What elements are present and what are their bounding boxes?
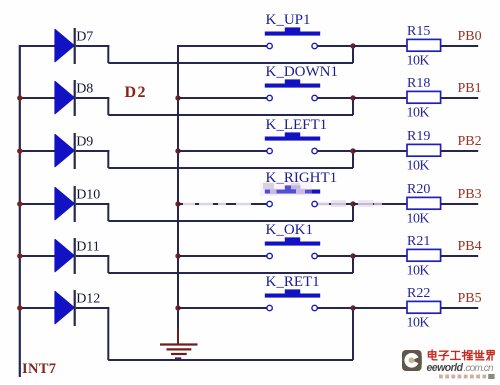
svg-text:K_OK1: K_OK1	[266, 222, 314, 238]
svg-text:K_RET1: K_RET1	[266, 274, 320, 290]
resistor R15	[407, 39, 441, 51]
wire: riser to junction PB4	[352, 256, 354, 273]
svg-text:10K: 10K	[407, 159, 430, 174]
wire: switch K_UP1 to junction	[317, 45, 353, 47]
logo title 电子工程世界	[428, 350, 494, 360]
node: bus junction row 5	[175, 253, 180, 258]
wire: bottom return wire	[108, 359, 353, 361]
wire: D8 step down	[107, 97, 109, 115]
wire: junction to resistor R20	[353, 203, 408, 205]
svg-text:R15: R15	[407, 24, 430, 39]
wire: riser to junction PB0	[352, 46, 354, 63]
wire: D9 cathode wire	[76, 150, 110, 152]
wire: riser to junction PB3	[352, 204, 354, 221]
node: bus junction row 4	[175, 201, 180, 206]
wire: bus to switch K_LEFT1	[178, 150, 267, 152]
svg-text:D10: D10	[76, 188, 100, 203]
wire: bus to switch K_DOWN1	[178, 97, 267, 99]
wire: resistor R15 to PB0	[441, 45, 479, 47]
node: rail junction row 6	[17, 305, 22, 310]
svg-text:PB2: PB2	[458, 134, 482, 149]
node: bus junction row 3	[175, 148, 180, 153]
wire: D7 step down	[107, 45, 109, 63]
resistor R21	[407, 249, 441, 261]
node: junction PB1	[350, 95, 355, 100]
svg-text:eeworld: eeworld	[427, 362, 464, 374]
svg-text:PB3: PB3	[458, 187, 482, 202]
node: junction PB4	[350, 253, 355, 258]
ground	[160, 329, 198, 359]
wire: D11 cathode wire	[76, 255, 110, 257]
svg-text:INT7: INT7	[22, 361, 56, 377]
resistor R20	[407, 197, 441, 209]
svg-text:PB5: PB5	[458, 291, 482, 306]
wire: bus to switch K_RET1	[178, 307, 267, 309]
wire: D12 anode wire	[20, 307, 55, 309]
wire: D7 horizontal to column	[108, 62, 353, 64]
svg-text:D9: D9	[76, 135, 93, 150]
svg-text:R19: R19	[407, 129, 430, 144]
resistor R19	[407, 144, 441, 156]
svg-text:D2: D2	[125, 84, 146, 101]
svg-text:.com.cn: .com.cn	[464, 363, 494, 374]
diode D9	[55, 133, 75, 169]
svg-text:R22: R22	[407, 286, 430, 301]
diode D7	[55, 28, 75, 64]
svg-text:10K: 10K	[407, 212, 430, 227]
wire: resistor R21 to PB4	[441, 255, 479, 257]
svg-text:D12: D12	[76, 292, 100, 307]
decorative watermark (not labelled further)	[183, 182, 382, 207]
wire: D8 cathode wire	[76, 97, 110, 99]
wire: bus to switch K_RIGHT1	[178, 203, 267, 205]
wire: D9 horizontal to column	[108, 167, 353, 169]
wire: switch K_RET1 to junction	[317, 307, 353, 309]
wire: junction to resistor R22	[353, 307, 408, 309]
wire: D7 cathode wire	[76, 45, 110, 47]
svg-text:R20: R20	[407, 182, 430, 197]
node: junction PB3	[350, 201, 355, 206]
wire: junction to resistor R21	[353, 255, 408, 257]
wire: D11 anode wire	[20, 255, 55, 257]
wire: D9 step down	[107, 150, 109, 168]
wire: resistor R20 to PB3	[441, 203, 479, 205]
logo url text	[427, 362, 494, 374]
switch K_RIGHT1	[265, 185, 320, 206]
wire: D7 anode wire	[20, 45, 55, 47]
node: rail junction row 5	[17, 253, 22, 258]
diode D12	[55, 290, 75, 326]
wire: junction to resistor R18	[353, 97, 408, 99]
switch K_UP1	[265, 27, 320, 48]
node: junction PB5	[350, 305, 355, 310]
wire: D12 step down	[107, 307, 109, 360]
svg-text:R21: R21	[407, 234, 430, 249]
svg-text:PB0: PB0	[458, 29, 482, 44]
svg-text:K_DOWN1: K_DOWN1	[266, 64, 339, 80]
switch K_LEFT1	[265, 132, 320, 153]
wire: D8 horizontal to column	[108, 114, 353, 116]
wire: riser to junction PB5	[352, 308, 354, 360]
wire: switch K_DOWN1 to junction	[317, 97, 353, 99]
svg-text:K_LEFT1: K_LEFT1	[266, 117, 328, 133]
diode D11	[55, 238, 75, 274]
wire: D11 horizontal to column	[108, 272, 353, 274]
wire: bus to switch K_UP1	[178, 45, 267, 47]
wire: D10 horizontal to column	[108, 220, 353, 222]
wire: resistor R22 to PB5	[441, 307, 479, 309]
wire: D11 step down	[107, 255, 109, 273]
wire: ground bus vertical	[177, 45, 179, 330]
wire: bus to switch K_OK1	[178, 255, 267, 257]
node: bus junction row 6	[175, 305, 180, 310]
node: rail junction row 4	[17, 201, 22, 206]
wire: D10 step down	[107, 203, 109, 221]
logo eeworld	[402, 350, 422, 371]
wire: D10 anode wire	[20, 203, 55, 205]
svg-text:D7: D7	[76, 30, 93, 45]
wire: D8 anode wire	[20, 97, 55, 99]
wire: D12 cathode wire	[76, 307, 110, 309]
switch K_DOWN1	[265, 79, 320, 100]
diode D10	[55, 186, 75, 222]
node: rail junction row 3	[17, 148, 22, 153]
svg-text:10K: 10K	[407, 106, 430, 121]
svg-text:10K: 10K	[407, 54, 430, 69]
diode D8	[55, 80, 75, 116]
svg-text:R18: R18	[407, 76, 430, 91]
node: junction PB2	[350, 148, 355, 153]
wire: D10 cathode wire	[76, 203, 110, 205]
svg-text:D8: D8	[76, 82, 93, 97]
wire: riser to junction PB1	[352, 98, 354, 115]
wire: switch K_OK1 to junction	[317, 255, 353, 257]
node: junction PB0	[350, 43, 355, 48]
wire: resistor R18 to PB1	[441, 97, 479, 99]
wire: switch K_LEFT1 to junction	[317, 150, 353, 152]
svg-text:PB4: PB4	[458, 239, 482, 254]
wire: switch K_RIGHT1 to junction	[317, 203, 353, 205]
svg-text:10K: 10K	[407, 264, 430, 279]
svg-text:K_UP1: K_UP1	[266, 12, 311, 28]
wire: junction to resistor R19	[353, 150, 408, 152]
resistor R22	[407, 301, 441, 313]
switch K_RET1	[265, 289, 320, 310]
svg-text:D11: D11	[76, 240, 100, 255]
node: bus junction row 2	[175, 95, 180, 100]
resistor R18	[407, 91, 441, 103]
svg-text:10K: 10K	[407, 316, 430, 331]
node: rail junction row 2	[17, 95, 22, 100]
wire: junction to resistor R15	[353, 45, 408, 47]
wire: D12 horizontal to column	[108, 359, 353, 361]
wire: left INT7 rail vertical	[19, 45, 21, 377]
wire: riser to junction PB2	[352, 151, 354, 168]
switch K_OK1	[265, 237, 320, 258]
wire: D9 anode wire	[20, 150, 55, 152]
wire: resistor R19 to PB2	[441, 150, 479, 152]
logo small print	[439, 375, 486, 379]
svg-text:PB1: PB1	[458, 81, 482, 96]
